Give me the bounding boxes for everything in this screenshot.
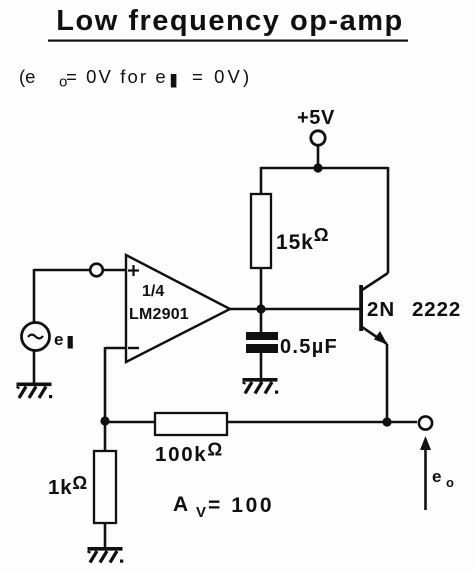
wire minus input [106, 347, 126, 350]
ground under capacitor [243, 378, 279, 394]
plus input marker [128, 265, 139, 276]
wire +5V terminal to rail [317, 146, 320, 169]
title underline [48, 40, 408, 42]
minus input marker [128, 347, 139, 349]
wire capacitor to ground [260, 352, 263, 383]
ground under R3 [88, 547, 124, 563]
svg-text:e: e [54, 330, 63, 349]
tilde in source [28, 335, 43, 339]
source V1 [22, 323, 50, 351]
wire input corner down to source [33, 269, 36, 322]
junction node feedback [100, 416, 109, 425]
output arrow shaft [424, 448, 427, 510]
svg-text:= 100: = 100 [208, 494, 274, 517]
svg-text:A: A [173, 493, 188, 516]
wire source to ground [33, 351, 36, 384]
output arrowhead [420, 436, 431, 450]
resistor R1 15k [251, 194, 271, 268]
+5V terminal [311, 131, 325, 145]
wire op-amp output to transistor base [229, 308, 360, 311]
transistor Q1 2N2222 collector lead [362, 273, 388, 290]
junction node emitter output [382, 417, 391, 426]
svg-text:2N: 2N [367, 298, 395, 321]
transistor base bar [359, 285, 363, 331]
svg-text:0.5µF: 0.5µF [280, 336, 338, 358]
wire top rail [261, 167, 388, 170]
capacitor C1 plate top [246, 332, 278, 340]
wire R1 bottom to output node [260, 268, 263, 310]
wire input top [34, 269, 90, 272]
resistor R3 1k [94, 451, 116, 523]
svg-text:+5V: +5V [297, 107, 335, 129]
ground under source [17, 383, 53, 399]
svg-text:= 0V for e: = 0V for e [66, 66, 168, 87]
wire feedback vertical [104, 347, 107, 451]
resistor R2 100k [155, 413, 227, 435]
emitter arrowhead [374, 331, 388, 345]
svg-text:Low frequency op-amp: Low frequency op-amp [56, 5, 403, 37]
wire R3 bottom to ground [104, 523, 107, 548]
wire output line left [105, 421, 155, 424]
wire collector branch down [387, 167, 390, 273]
capacitor C1 plate bottom [246, 344, 278, 353]
subtitle [19, 66, 252, 91]
wire output line right [227, 421, 417, 424]
junction node rail [313, 163, 322, 172]
svg-text:2222: 2222 [412, 298, 461, 321]
svg-text:15kΩ: 15kΩ [276, 224, 329, 254]
svg-text:LM2901: LM2901 [129, 306, 189, 323]
svg-text:1kΩ: 1kΩ [48, 472, 88, 499]
junction node op-amp output [256, 304, 265, 313]
transistor emitter lead [362, 327, 387, 344]
wire emitter down to output line [386, 344, 389, 422]
wire terminal to op-amp plus [104, 269, 127, 272]
svg-text:o: o [446, 475, 454, 490]
svg-text:(e: (e [19, 66, 35, 87]
output terminal [419, 416, 432, 429]
svg-text:1/4: 1/4 [142, 283, 164, 300]
input terminal [90, 264, 103, 277]
svg-text:V: V [196, 504, 206, 521]
svg-text:= 0V): = 0V) [192, 66, 252, 87]
wire output node to capacitor [260, 308, 263, 333]
op-amp U1 [126, 255, 230, 362]
svg-text:e: e [432, 467, 441, 486]
wire rail down to R1 top [260, 167, 263, 194]
svg-text:100kΩ: 100kΩ [155, 439, 224, 467]
